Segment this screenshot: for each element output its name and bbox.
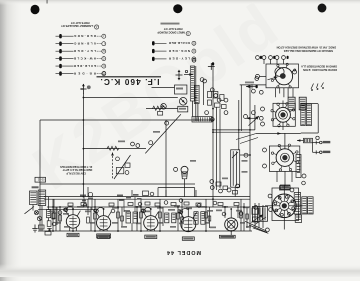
- V2 pins: [96, 209, 112, 231]
- choke right of V9 col 1: [294, 193, 300, 215]
- legend1 header: [61, 21, 93, 28]
- legend1 row 3 letter: [97, 50, 102, 52]
- transformer arrows: [251, 215, 266, 225]
- volume smudge labels: [118, 131, 248, 179]
- circled letter b13: [142, 209, 146, 213]
- V3 grid cap: [141, 209, 144, 212]
- svg-text:SMHO NI SECNATSISER LLA: SMHO NI SECNATSISER LLA: [301, 64, 337, 68]
- legend1 row 2 plug: [59, 42, 62, 46]
- circle near IF label: [102, 71, 106, 75]
- svg-text:I.F. 460 K.C.: I.F. 460 K.C.: [101, 77, 160, 86]
- tube V6 shield box: [266, 64, 299, 88]
- input cluster ground: [47, 229, 51, 232]
- V9 grid cap block: [280, 185, 290, 189]
- volume wiper inside: [232, 152, 238, 158]
- V7 top bottom leads: [282, 101, 284, 131]
- circled letter o6: [217, 98, 221, 102]
- input cluster circle: [52, 222, 56, 226]
- V3 internal electrodes: [147, 217, 155, 228]
- IF label underline: [97, 76, 162, 78]
- value box left: [35, 177, 46, 182]
- legend1 row 1 plug: [59, 34, 62, 38]
- trimmer circle mid: [161, 104, 167, 110]
- volume bottom wire: [234, 187, 236, 196]
- legend2 row 2 plug: [152, 49, 155, 53]
- circled letter b11: [64, 208, 68, 212]
- speaker wire labels: [323, 141, 331, 143]
- V2 label box extra: [97, 234, 111, 238]
- circled letter b10: [239, 212, 243, 216]
- lower center cluster box 3: [233, 191, 238, 195]
- note 2: [301, 64, 337, 72]
- output transformer left of V9: [253, 206, 268, 221]
- svg-text:MODEL 44: MODEL 44: [166, 249, 201, 255]
- heater rail: [47, 206, 250, 208]
- sub-box under lamp: [158, 188, 195, 197]
- svg-text:D: D: [193, 41, 195, 45]
- V9 pin circles: [274, 196, 295, 217]
- antenna vertical wires: [33, 197, 56, 231]
- ground rail: [38, 230, 252, 232]
- tube V3 envelope: [144, 216, 158, 230]
- circled letter o1: [192, 58, 196, 62]
- circled letter o12: [252, 89, 256, 93]
- V3 pins: [143, 209, 159, 231]
- osc resistor stack 2: [208, 100, 212, 105]
- svg-text:RB-DER: RB-DER: [73, 71, 96, 75]
- padder trimmer circle: [179, 98, 187, 106]
- plug arrow left edge: [246, 84, 258, 88]
- svg-text:G: G: [187, 32, 189, 36]
- wire top right of osc: [240, 85, 266, 131]
- legend1 row 2 letter: [97, 43, 102, 45]
- lower center cluster box 1: [216, 182, 221, 186]
- IFT4 coil A: [194, 212, 198, 225]
- legend2 header: [157, 27, 184, 34]
- legend2 row 3 plug: [152, 57, 155, 61]
- local rail left: [38, 209, 95, 211]
- V6 circled letter right: [293, 70, 297, 74]
- dial lamp down wire: [184, 179, 186, 197]
- coil column A right of V7: [301, 104, 305, 126]
- right bus wire: [249, 87, 251, 232]
- legend1 row 5 wire: [56, 65, 74, 67]
- svg-text:G: G: [103, 57, 105, 61]
- circled letter b7: [197, 204, 201, 208]
- circled letter m1: [165, 121, 169, 125]
- caption above legend2: [161, 23, 180, 25]
- legend2 row 1 letter: [192, 41, 196, 45]
- circled letter o9: [205, 111, 209, 115]
- choke right of V9 col 3: [308, 197, 314, 214]
- lower center circle 1: [219, 189, 223, 193]
- legend1 row 6 plug: [59, 71, 62, 75]
- circled letter b3: [111, 209, 115, 213]
- V3 label: [145, 235, 157, 238]
- V4 label: [182, 237, 194, 240]
- speaker wires right edge: [313, 141, 323, 155]
- legend1 row 5 letter: [97, 65, 102, 67]
- wires below V8: [277, 171, 292, 186]
- circled letter o11: [255, 77, 259, 81]
- mid horizontal wires: [213, 155, 250, 197]
- grid cap wires: [66, 207, 188, 213]
- V9 radial spokes: [273, 194, 297, 218]
- left page edge shading: [0, 0, 24, 281]
- gang condenser box: [175, 85, 187, 94]
- bottom value smudges: [49, 205, 251, 228]
- interior cluster diagonal: [114, 155, 131, 179]
- circled letter below tall resistor: [302, 181, 306, 185]
- V6 arrow lead: [268, 76, 278, 79]
- V1 pins: [66, 208, 81, 231]
- V1 internal electrodes: [69, 216, 76, 227]
- tube V7 shield box: [273, 103, 295, 126]
- circled letter m4: [227, 188, 231, 192]
- tube V5 envelope: [225, 218, 238, 231]
- legend1 row 3 plug: [59, 49, 62, 53]
- coil column B right of V7: [306, 104, 311, 126]
- svg-text:DER-NRG: DER-NRG: [73, 34, 96, 38]
- legend1 row 4 wire: [56, 58, 74, 60]
- V9 bottom diagonal wires: [245, 221, 284, 232]
- V1 grid cap: [64, 208, 67, 211]
- IFT1 coil B: [133, 212, 138, 223]
- osc horizontal coil: [192, 117, 212, 123]
- circled letter o5: [214, 94, 218, 98]
- interior cluster dashed arrow: [111, 153, 114, 180]
- bottom page crease: [0, 264, 360, 277]
- legend1 row 1 wire: [56, 35, 74, 37]
- mark near top-left: [46, 0, 49, 4]
- IFT1 coil A: [126, 212, 131, 223]
- antenna coil stack right: [38, 190, 46, 206]
- small box mid: [158, 112, 163, 116]
- legend1 row 3 wire: [56, 50, 74, 52]
- V2 grid cap: [94, 209, 97, 212]
- V5 label strip: [219, 235, 235, 238]
- vertical to volume box: [239, 100, 255, 150]
- tube V4 envelope: [181, 217, 196, 232]
- part number text block: [60, 165, 92, 176]
- V7 circled letters: [261, 107, 265, 111]
- circled letter o13: [259, 90, 263, 94]
- circled letter near resistor: [316, 136, 319, 139]
- IFT2 coil A: [165, 213, 169, 223]
- trimmer cross 2: [176, 70, 183, 81]
- input cluster coil: [47, 210, 51, 218]
- svg-text:LANIMRET REKAEPS OT: LANIMRET REKAEPS OT: [61, 24, 93, 28]
- tube V9 surround box: [272, 188, 299, 221]
- interior rail y184: [40, 183, 195, 185]
- IFT3 coil B: [299, 97, 306, 110]
- circled letter o10: [210, 118, 214, 122]
- V9 external leads: [265, 185, 303, 224]
- tube V6 envelope: [275, 68, 292, 85]
- legend1 row 1 letter: [97, 35, 102, 37]
- antenna coil stack left: [30, 191, 38, 205]
- legend1 row 5 plug: [59, 64, 62, 68]
- wires above V6: [264, 60, 284, 65]
- circled letter m6: [244, 115, 248, 119]
- circled letter o7: [224, 98, 228, 102]
- junction dots bottom: [52, 119, 245, 232]
- resistor zigzag center: [153, 106, 164, 110]
- small value box left of lamp: [143, 191, 154, 196]
- note 1: [276, 45, 336, 53]
- plug arrow mid right: [247, 117, 257, 120]
- lower center circle 2: [236, 184, 240, 188]
- lower center cluster box 2: [223, 186, 228, 190]
- legend1 row 6 wire: [56, 73, 74, 75]
- bottom right cluster: [252, 203, 268, 233]
- center rail: [146, 108, 178, 110]
- wire cross right: [83, 97, 177, 99]
- input cluster resistor 1: [52, 213, 56, 218]
- circled letter o8: [224, 111, 228, 115]
- circled letter o14: [252, 111, 256, 115]
- tube V2 envelope: [97, 216, 111, 230]
- V8 circled letters: [263, 148, 267, 152]
- interior cluster boxes: [116, 157, 130, 175]
- V5 inner structure: [227, 209, 235, 235]
- outer top rail: [40, 119, 213, 121]
- V6 small anode circle: [275, 67, 284, 76]
- cluster right of osc: [214, 92, 227, 109]
- extra clutter verticals bottom-left: [84, 197, 135, 212]
- circled letter b5: [164, 201, 168, 205]
- circled letter b1: [58, 211, 62, 215]
- V1 label: [67, 233, 79, 236]
- tube V9 envelope: [273, 194, 297, 218]
- V8 pin stubs: [271, 144, 298, 171]
- circled letters near V9: [254, 206, 258, 210]
- tiny label above arrow: [245, 82, 254, 84]
- svg-text:EULB-DER: EULB-DER: [73, 64, 96, 68]
- wires below V6 box: [276, 88, 293, 97]
- svg-text:A: A: [95, 25, 97, 29]
- legend1 row 6 letter: [97, 73, 102, 75]
- junction dots center: [83, 97, 251, 156]
- svg-text:DNOC .FM 10. HTIW DETNUHS SRET: DNOC .FM 10. HTIW DETNUHS SRETAEH :ETON: [276, 45, 336, 49]
- legend1 row 2 wire: [56, 43, 74, 45]
- bottom vertical wires: [53, 197, 247, 232]
- alignment marks: [311, 83, 324, 90]
- circled letter m3: [174, 167, 178, 171]
- antenna bottom boxes: [39, 225, 52, 235]
- legend2 row 1 plug: [152, 41, 155, 45]
- padder value box: [178, 106, 188, 112]
- V7 inner electrode: [280, 112, 285, 117]
- V4 grid cap: [178, 210, 181, 213]
- legend2 row 3 letter: [192, 57, 196, 61]
- input cluster resistor 2: [47, 221, 51, 227]
- punch hole 1: [31, 5, 40, 14]
- V4 pins: [180, 210, 197, 232]
- V7 pin stubs: [271, 103, 295, 127]
- osc coil B: [194, 85, 199, 103]
- antenna lead-in diagonal: [25, 207, 35, 214]
- legend1 row 4 letter: [97, 58, 102, 60]
- bottom crease line: [0, 270, 360, 271]
- tall resistor right column: [296, 155, 301, 178]
- double wires to volume: [213, 130, 255, 132]
- bottom resistor boxes: [52, 202, 249, 223]
- center bus wires: [213, 67, 220, 197]
- cathode rail A: [44, 196, 213, 198]
- antenna trimmer 1: [34, 210, 38, 214]
- circled letter row above V6: [256, 56, 286, 60]
- legend1 header circle: [95, 25, 99, 29]
- arrow right of cross2: [184, 70, 193, 76]
- circled letter near V2 cap: [88, 192, 92, 196]
- V2 internal electrodes: [100, 217, 108, 228]
- circled letter o2: [200, 78, 204, 82]
- wiper arrow: [249, 116, 260, 126]
- svg-text:HW-KCLB: HW-KCLB: [73, 56, 96, 60]
- svg-text:SISSAHC OT DEDNUORG DNA DELAES: SISSAHC OT DEDNUORG DNA DELAES: [284, 49, 333, 53]
- circled letter o4: [210, 88, 214, 92]
- circled letter o15: [259, 116, 263, 120]
- plugs above V6: [260, 56, 289, 59]
- cathode rail B: [44, 198, 250, 200]
- tube V8 shield box: [269, 146, 299, 171]
- wire cross down: [82, 94, 84, 197]
- circled letter b6: [179, 199, 183, 203]
- circled letter left of V6: [256, 74, 260, 78]
- wires bottom row up to center: [88, 120, 196, 197]
- trimmer cross symbol: [80, 84, 91, 94]
- interior rail y148: [83, 148, 146, 150]
- legend2 row 2 letter: [192, 49, 196, 53]
- circled letter b9: [222, 212, 226, 216]
- switch diagonals: [236, 134, 258, 144]
- circled letter b2: [83, 203, 87, 207]
- bus top plug: [212, 62, 214, 65]
- letters on interior rail: [131, 142, 135, 146]
- circled letter b12: [95, 209, 99, 213]
- antenna ground symbol: [32, 225, 37, 232]
- resistor below coil box: [297, 138, 313, 143]
- svg-text:CDV 052 ETALP: CDV 052 ETALP: [66, 172, 86, 176]
- IFT2 coil B: [172, 213, 176, 223]
- osc tall coil: [190, 66, 194, 101]
- V6 pin stubs: [271, 63, 296, 88]
- punch hole 3: [318, 4, 327, 13]
- volume control box: [231, 150, 240, 187]
- legend2 header circle: [186, 31, 190, 35]
- V8 inner electrode: [282, 155, 287, 160]
- svg-text:KCALB-DER: KCALB-DER: [168, 41, 190, 45]
- V2 label: [98, 235, 110, 238]
- dial lamp: [181, 166, 188, 179]
- resistor below V8: [280, 186, 291, 190]
- wire V6 to letter: [260, 75, 267, 77]
- tube V7 envelope: [276, 107, 291, 122]
- antenna trimmer 2: [37, 216, 41, 220]
- antenna value label: [32, 186, 39, 188]
- circled letters near bus bottom: [210, 180, 214, 190]
- wire IF row right: [152, 87, 175, 89]
- osc vertical wires: [192, 66, 203, 121]
- IFT4 coil B: [201, 212, 205, 225]
- wire under V7 box: [256, 132, 301, 135]
- V9 inner ring: [280, 201, 289, 210]
- punch hole 2: [173, 4, 182, 13]
- circled letter o3: [203, 79, 207, 83]
- tube V1 envelope: [66, 215, 79, 228]
- IFT3 coil A: [288, 97, 295, 110]
- svg-text:H: H: [103, 49, 105, 53]
- osc resistor stack 1: [208, 92, 212, 98]
- svg-text:05-52: 05-52: [37, 177, 44, 181]
- diagonal AVC wire: [145, 114, 181, 153]
- svg-text:NRG-DER: NRG-DER: [168, 49, 190, 53]
- svg-text:MRET DROC REWOP: MRET DROC REWOP: [157, 31, 184, 35]
- V9 center electrode: [282, 203, 287, 208]
- svg-text:C: C: [193, 49, 195, 53]
- stub coil below choke: [295, 215, 301, 223]
- V8 top wire: [284, 133, 286, 149]
- outer left rail: [39, 120, 41, 231]
- V6 center button: [280, 73, 286, 79]
- circled letter m5: [244, 153, 248, 157]
- circled letter m2: [149, 141, 153, 145]
- extra clutter smudges bottom-left: [80, 194, 142, 201]
- cross on bus: [208, 63, 215, 70]
- zigzag on interior rail: [107, 146, 119, 150]
- choke right of V9 col 2: [302, 197, 307, 214]
- V4 internal electrodes: [184, 218, 192, 230]
- tube V8 envelope: [276, 149, 294, 167]
- svg-text:DFM NI SEITICAPAC :ETON: DFM NI SEITICAPAC :ETON: [303, 68, 337, 72]
- circled letter b8: [213, 201, 217, 205]
- legend1 row 4 plug: [59, 56, 62, 60]
- circled letter b14: [179, 210, 183, 214]
- coil assembly outer box: [301, 104, 318, 134]
- top page edge shading: [0, 0, 360, 5]
- circled letter b4: [138, 202, 142, 206]
